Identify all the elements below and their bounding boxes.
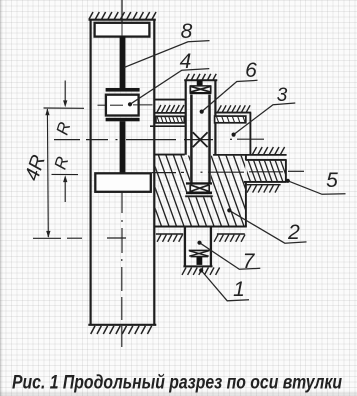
fork right wall	[153, 19, 155, 326]
left arm plate hatching	[157, 105, 184, 112]
right washer hatch	[211, 116, 245, 123]
tube outer wall left	[185, 80, 187, 155]
extension line top (R datum)	[44, 107, 85, 109]
flange bar lower	[106, 118, 140, 122]
extension line bottom (4R datum)	[33, 237, 126, 239]
left washer bar (hatched)	[156, 116, 184, 123]
cone washer 7 with cross	[189, 250, 210, 256]
fork centerline upper	[121, 0, 123, 23]
cup right wall	[249, 113, 251, 156]
svg-text:5: 5	[326, 169, 338, 192]
callout leader 6	[202, 80, 258, 111]
centerline through upper boss	[121, 24, 123, 36]
callout leader 4	[130, 69, 209, 105]
svg-text:R: R	[53, 120, 75, 137]
shaft bottom edge	[244, 181, 287, 183]
spoke web lower (thick)	[120, 121, 126, 173]
tube top edge	[184, 79, 217, 81]
hub shell section hatching	[128, 154, 274, 226]
bottom nut 1 (black)	[197, 257, 203, 265]
extension line middle (R datum)	[52, 173, 79, 175]
dimension arrow R lower (points up)	[63, 175, 67, 202]
axle boss 4 (white box)	[106, 95, 139, 116]
tube inner wall left	[190, 95, 193, 183]
frame hatching below shaft	[247, 185, 279, 192]
right arm plate hatching	[218, 105, 251, 112]
lower bearing box with cross	[186, 182, 212, 184]
spoke boss upper (rect)	[95, 23, 150, 37]
svg-text:8: 8	[181, 20, 193, 43]
callout leader 8	[124, 41, 210, 68]
shaft section hatching	[237, 159, 289, 182]
wall hatching above fork top	[89, 12, 156, 19]
left support line	[156, 233, 183, 235]
column wall right	[210, 227, 212, 267]
svg-text:4: 4	[180, 50, 192, 73]
svg-text:4R: 4R	[21, 152, 50, 183]
top nut (black)	[197, 80, 203, 85]
fork centerline lower dash-dot	[121, 192, 123, 347]
left washer hatch	[153, 116, 183, 123]
svg-text:2: 2	[287, 221, 300, 244]
tube outer wall right	[214, 80, 216, 155]
left support hatching	[157, 235, 183, 242]
callout leader 3	[234, 103, 296, 135]
hub shell bottom edge	[154, 226, 247, 228]
callout leader 7	[200, 243, 261, 270]
shaft top edge	[246, 159, 287, 161]
shaft axis dash-dot	[152, 171, 304, 172]
boss 4 horizontal centerline	[98, 104, 153, 106]
callout leader 5	[288, 181, 346, 195]
dimension arrow R upper (points down)	[63, 81, 67, 108]
hub shell top-right / frame line B	[213, 154, 287, 156]
cross mark X on axis	[193, 132, 208, 147]
svg-text:R: R	[51, 154, 73, 171]
wall hatching above tube top	[186, 74, 216, 80]
frame hatching above line B	[253, 147, 285, 154]
bore floor line	[185, 195, 213, 197]
upper bearing box with cross	[190, 86, 212, 93]
hub shell right edge	[245, 155, 247, 227]
spoke web upper (thick)	[120, 36, 126, 89]
right arm seat line	[214, 112, 251, 114]
base hatching below column	[182, 268, 220, 275]
right support hatching	[214, 235, 245, 242]
flange bar upper	[106, 88, 140, 92]
fork left wall	[89, 19, 91, 326]
fork bottom edge	[88, 324, 156, 326]
column bottom edge	[183, 265, 212, 267]
ground hatching below fork bottom	[91, 326, 152, 334]
main hub axis dash-dot	[54, 138, 264, 140]
shaft end cap	[285, 160, 287, 183]
left arm top edge	[154, 99, 185, 101]
svg-text:6: 6	[245, 59, 257, 82]
callout leader 2	[229, 210, 306, 243]
column wall left	[184, 227, 186, 267]
right support line	[217, 233, 245, 235]
tube inner wall right	[208, 95, 211, 183]
svg-text:7: 7	[243, 250, 256, 273]
svg-text:3: 3	[277, 85, 288, 106]
left arm seat line	[155, 112, 186, 114]
callout leader 1	[201, 270, 249, 300]
right washer bar (hatched)	[215, 116, 246, 123]
dimension line 4R with arrows	[45, 108, 50, 238]
spoke boss lower (rect)	[95, 173, 151, 192]
frame line below shaft	[247, 184, 281, 186]
fork top edge	[89, 19, 156, 21]
svg-text:1: 1	[233, 278, 245, 301]
hub shell top-left edge	[154, 154, 185, 156]
left arm bottom edge	[150, 125, 185, 127]
